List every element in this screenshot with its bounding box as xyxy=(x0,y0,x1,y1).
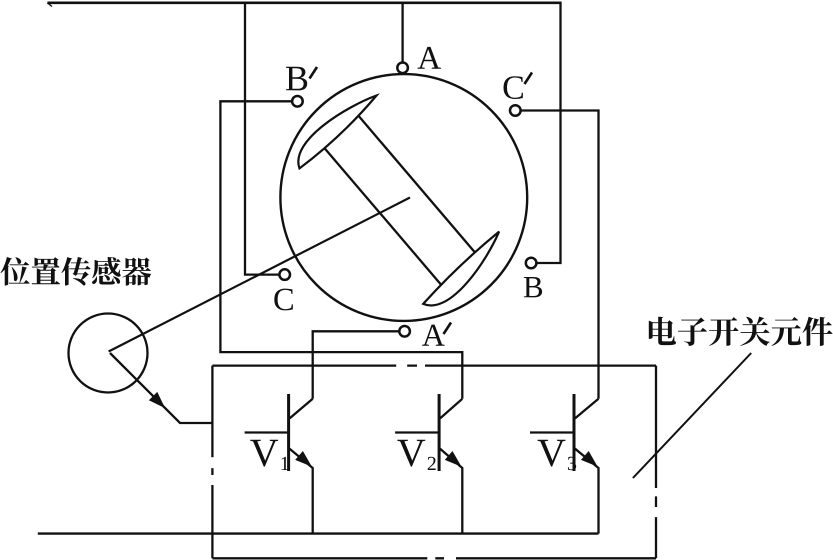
label V3 xyxy=(538,440,577,470)
label B xyxy=(524,277,542,297)
terminal A circle xyxy=(397,63,408,74)
wire top supply rail xyxy=(47,1,561,4)
label V1 xyxy=(250,440,288,470)
rotor bar side 2 xyxy=(325,148,441,284)
transistor V1 base bar xyxy=(287,394,290,471)
wire top rail to terminal B (right vertical) xyxy=(537,3,561,263)
wire tick at rail start xyxy=(47,3,52,7)
transistor V3 emitter xyxy=(575,449,599,534)
wire top rail to terminal C (left vertical) xyxy=(245,3,279,275)
transistor V1 emitter arrowhead xyxy=(296,452,311,466)
wire top rail to terminal A xyxy=(401,3,403,63)
sensor wire arrowhead xyxy=(150,393,164,407)
transistor V2 base lead xyxy=(395,431,439,433)
transistor V1 collector xyxy=(290,399,313,419)
transistor V2 collector xyxy=(440,399,462,419)
electronic switch box outline (with break marks) xyxy=(212,366,656,559)
terminal B circle xyxy=(526,258,537,269)
position sensor circle xyxy=(69,314,148,393)
transistor V1 base lead xyxy=(245,431,289,433)
rotor pole shoe upper-left crescent xyxy=(298,96,376,169)
terminal A-prime circle xyxy=(399,326,410,337)
rotor pole shoe lower-right crescent xyxy=(423,232,499,306)
label A-prime xyxy=(422,325,445,346)
wire terminal A-prime to V1 collector xyxy=(313,331,399,399)
rotor bar side 1 xyxy=(359,116,476,253)
wire terminal C-prime to V3 collector xyxy=(521,111,599,399)
transistor V3 base lead xyxy=(530,431,574,433)
wire bottom supply rail xyxy=(38,532,599,534)
label electronic-switch-elements (Chinese) xyxy=(649,317,833,346)
motor stator circle xyxy=(280,74,527,321)
label position-sensor (Chinese) xyxy=(1,257,152,286)
label A xyxy=(418,47,441,69)
sensor output wire with arrow into switch box xyxy=(110,353,212,423)
transistor V2 emitter xyxy=(440,449,462,534)
transistor V2 base bar xyxy=(438,394,441,471)
rotor shaft line to position sensor xyxy=(109,198,410,352)
terminal C circle xyxy=(279,269,290,280)
transistor V3 emitter arrowhead xyxy=(582,452,597,466)
wire terminal B-prime to V2 collector xyxy=(220,101,462,399)
transistor V2 emitter arrowhead xyxy=(446,452,461,466)
label C-prime xyxy=(504,76,523,99)
label C xyxy=(274,289,293,311)
label B-prime xyxy=(286,67,307,91)
pointer line from box to label xyxy=(633,353,751,478)
transistor V3 collector xyxy=(575,399,599,419)
label V2 xyxy=(397,440,435,470)
transistor V1 emitter xyxy=(290,449,313,534)
terminal B-prime circle xyxy=(292,96,303,107)
terminal C-prime circle xyxy=(510,105,521,116)
transistor V3 base bar xyxy=(573,394,576,471)
